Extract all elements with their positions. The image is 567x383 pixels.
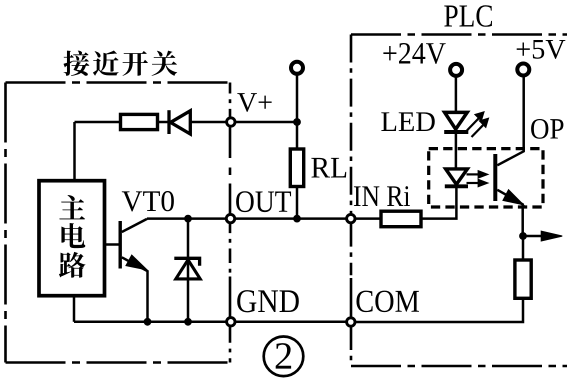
resistor Ri	[381, 211, 421, 227]
V+ rail wire	[235, 121, 297, 124]
optocoupler OP dashed box	[429, 149, 543, 207]
resistor RL	[290, 149, 303, 187]
label V+	[237, 93, 271, 112]
terminal OUT	[226, 214, 234, 222]
label +5V	[517, 40, 566, 59]
terminal V+	[227, 118, 235, 126]
phototransistor collector	[497, 77, 523, 166]
junction dot RL/OUT	[293, 215, 301, 223]
top terminal circle above RL	[291, 62, 303, 74]
LED light emission arrows	[467, 119, 483, 138]
label OUT	[236, 191, 291, 212]
junction dot zener top	[184, 215, 192, 223]
wire top terminal to V+ rail	[296, 75, 299, 149]
terminal GND	[227, 318, 235, 326]
label OP	[531, 119, 563, 139]
output signal arrow	[523, 235, 544, 238]
label GND	[237, 290, 299, 312]
wire Ri to LED cathode column	[421, 188, 456, 219]
wire from internal circuit to resistor	[75, 122, 122, 181]
wire GND terminal to COM terminal	[235, 321, 347, 324]
label +24V	[383, 43, 445, 64]
wire diode to V+ terminal	[191, 121, 228, 124]
label 主电路	[59, 195, 86, 278]
PLC enclosure dashed box	[351, 35, 567, 367]
terminal +24V	[450, 64, 462, 76]
transistor VT0 collector	[122, 219, 147, 232]
transistor VT0 emitter with arrow	[122, 257, 148, 322]
terminal COM	[347, 318, 355, 326]
OUT rail (internal)	[147, 217, 227, 220]
figure number 2 in circle	[264, 337, 304, 377]
junction dot output node	[519, 232, 527, 240]
junction dot zener bottom	[184, 318, 192, 326]
transistor VT0 base bar	[118, 221, 121, 269]
GND rail (internal)	[74, 321, 227, 324]
junction dot emitter/GND	[144, 318, 152, 326]
proximity switch enclosure dashed box 接近开关	[6, 83, 231, 363]
optocoupler LED cathode bar	[445, 184, 468, 188]
wire OUT terminal to IN terminal	[235, 217, 347, 220]
resistor (PLC pull-down)	[522, 236, 525, 260]
phototransistor base bar	[493, 154, 497, 201]
wire RL bottom to OUT rail	[296, 187, 299, 219]
label PLC	[444, 5, 492, 27]
LED (indicator) triangle	[445, 112, 468, 129]
label VT0	[122, 191, 174, 211]
wire LED to optocoupler LED	[455, 134, 458, 169]
label COM	[356, 291, 419, 313]
label IN Ri	[354, 186, 410, 206]
optocoupler LED triangle	[446, 169, 468, 185]
terminal +5V	[517, 64, 529, 76]
wire main circuit bottom to GND rail	[73, 296, 76, 322]
label 接近开关	[64, 51, 178, 76]
wire IN terminal to Ri	[355, 217, 381, 220]
label RL	[311, 158, 346, 178]
phototransistor emitter with arrow	[497, 190, 522, 236]
label LED	[381, 112, 434, 131]
wire +24V terminal down to LED	[455, 77, 458, 113]
terminal IN	[347, 214, 355, 222]
zener diode VS cathode bar with bent tip	[174, 258, 199, 266]
zener diode VS vertical wire	[187, 219, 190, 322]
optocoupler light coupling arrows	[467, 174, 481, 183]
LED (indicator) cathode bar	[444, 130, 468, 134]
wire resistor to diode	[157, 121, 168, 124]
resistor (protection, top-left)	[121, 114, 158, 129]
diode VD (reverse-protection, cathode left)	[169, 110, 190, 134]
main circuit box 主电路	[39, 181, 105, 296]
zener diode VS triangle	[176, 260, 200, 279]
junction dot V+/RL	[293, 118, 301, 126]
transistor VT0 base wire	[105, 243, 119, 246]
wire resistor to COM rail	[355, 298, 523, 322]
